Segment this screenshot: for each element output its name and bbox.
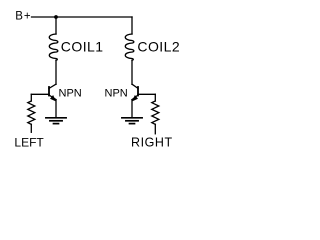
- wire left resistor top lead: [30, 94, 32, 101]
- transistor Q2 emitter arrowhead: [132, 95, 138, 102]
- node junction dot at COIL1 tap: [54, 15, 58, 19]
- resistor left (LEFT input): [28, 101, 35, 124]
- transistor Q1 collector stroke: [49, 84, 56, 88]
- wire right resistor bottom lead: [154, 124, 156, 133]
- svg-text:B+: B+: [15, 11, 31, 23]
- wire Q2 base to right resistor: [138, 93, 155, 95]
- transistor Q2 base bar: [137, 87, 139, 96]
- wire B+ rail horizontal: [32, 16, 133, 18]
- svg-text:RIGHT: RIGHT: [131, 135, 173, 149]
- transistor Q1 emitter arrowhead: [50, 95, 56, 102]
- wire COIL1 bottom to Q1 collector: [55, 60, 57, 84]
- wire Q2 emitter to ground: [131, 100, 133, 118]
- wire COIL2 top lead: [131, 17, 133, 34]
- wire COIL1 top lead: [55, 17, 57, 34]
- inductor COIL1: [49, 34, 58, 60]
- resistor right (RIGHT input): [152, 101, 159, 124]
- wire left resistor bottom lead: [30, 124, 32, 132]
- svg-text:COIL1: COIL1: [61, 38, 104, 54]
- svg-text:NPN: NPN: [105, 87, 128, 99]
- inductor COIL2: [125, 34, 134, 60]
- svg-text:COIL2: COIL2: [137, 38, 180, 54]
- transistor Q1 base bar: [48, 87, 50, 96]
- svg-text:NPN: NPN: [59, 87, 82, 99]
- wire Q1 base to left resistor: [31, 93, 49, 95]
- transistor Q2 collector stroke: [132, 84, 138, 88]
- wire right resistor top lead: [154, 94, 156, 101]
- transistor Q2 emitter stroke: [132, 95, 138, 100]
- ground for Q2 emitter: [122, 118, 142, 124]
- transistor Q1 emitter stroke: [49, 95, 56, 100]
- wire COIL2 bottom to Q2 collector: [131, 60, 133, 84]
- wire Q1 emitter to ground: [55, 100, 57, 118]
- ground for Q1 emitter: [46, 118, 66, 124]
- svg-text:LEFT: LEFT: [14, 135, 44, 149]
